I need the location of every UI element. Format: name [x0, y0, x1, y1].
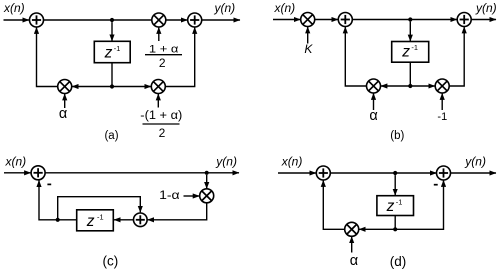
- label minus at A1 (c): [47, 183, 51, 185]
- svg-text:-1: -1: [411, 43, 418, 52]
- wire node to delay (d): [394, 175, 396, 195]
- wire A1 to A2 (d): [330, 172, 436, 174]
- adder A2 (c): [134, 213, 148, 227]
- adder A1 (c): [31, 166, 45, 180]
- svg-text:α: α: [59, 106, 67, 122]
- wire A1 to A2 (b): [352, 19, 457, 21]
- wire node to M2 (a): [72, 86, 112, 88]
- wire delay to node (a): [111, 63, 113, 87]
- wire minus one to M2 (b): [441, 93, 443, 110]
- node after A1 (b): [408, 17, 412, 21]
- multiplier M1 (a): [152, 13, 166, 27]
- wire M0 to A1 (b): [315, 19, 338, 21]
- delay box Z2 (b): [392, 42, 429, 63]
- svg-text:z: z: [104, 44, 113, 61]
- wire A1 to M1 (a): [44, 19, 152, 21]
- svg-text:x(n): x(n): [5, 154, 27, 168]
- multiplier M2 minus one (b): [435, 79, 449, 93]
- label z-1 (d): [386, 198, 403, 215]
- coefficient -(1+alpha)/2 label (a): [140, 110, 182, 140]
- wire coeff to M3 (a): [157, 94, 159, 108]
- multiplier M1 (c): [200, 189, 214, 203]
- multiplier M3 (a): [151, 80, 165, 94]
- svg-text:z: z: [386, 198, 395, 215]
- wire node to A2 (d): [395, 180, 443, 229]
- adder A1 (a): [30, 13, 44, 27]
- svg-text:α: α: [350, 253, 358, 269]
- multiplier M0 K (b): [301, 13, 315, 27]
- wire A1 to output (c): [45, 172, 239, 174]
- svg-text:(b): (b): [390, 130, 404, 142]
- wire M2 to A1 (a): [37, 27, 58, 86]
- label z-1 (b): [401, 43, 418, 60]
- svg-text:K: K: [304, 42, 313, 56]
- svg-text:y(n): y(n): [464, 154, 486, 168]
- wire node to delay (a): [111, 22, 113, 41]
- node after delay (c): [56, 218, 60, 222]
- svg-text:z: z: [401, 44, 410, 61]
- wire input (d): [278, 172, 316, 174]
- label minus at A2 (d): [434, 184, 438, 186]
- wire input (b): [273, 19, 300, 21]
- wire output y(n) (d): [451, 172, 497, 174]
- wire output y(n) (b): [471, 19, 496, 21]
- multiplier M1 alpha (b): [367, 79, 381, 93]
- delay box Z3 (c): [77, 210, 114, 231]
- fraction bar (1+alpha)/2 (a): [145, 54, 182, 56]
- node after A1 (d): [393, 171, 397, 175]
- wire M1 to A1 (d): [323, 180, 344, 229]
- wire node to M2 (b): [410, 85, 435, 87]
- svg-text:1 + α: 1 + α: [149, 43, 179, 55]
- adder A2 (b): [457, 13, 471, 27]
- node below delay (a): [110, 84, 114, 88]
- wire delay to node (b): [409, 62, 411, 86]
- svg-text:1-α: 1-α: [159, 190, 180, 202]
- svg-text:-1: -1: [437, 111, 447, 123]
- svg-text:-1: -1: [97, 212, 104, 221]
- wire alpha to M2 (a): [64, 94, 66, 108]
- svg-text:(c): (c): [103, 254, 119, 269]
- wire M1 to A2 (a): [166, 19, 188, 21]
- wire output y(n) (a): [202, 19, 240, 21]
- wire delay to node (d): [394, 216, 396, 230]
- wire node to A2 top loop (c): [58, 197, 141, 220]
- fraction bar -(1+alpha)/2 (a): [143, 123, 180, 125]
- svg-text:x(n): x(n): [3, 1, 25, 15]
- wire K to M0 (b): [307, 27, 309, 44]
- adder A2 (d): [437, 166, 451, 180]
- wire node down to M1 (c): [206, 175, 208, 189]
- adder A1 (d): [316, 166, 330, 180]
- svg-text:-1: -1: [114, 44, 121, 53]
- node below delay (b): [408, 84, 412, 88]
- wire M3 to A2 (a): [165, 27, 194, 86]
- node below delay (d): [393, 227, 397, 231]
- adder A2 (a): [188, 13, 202, 27]
- multiplier M1 (d): [345, 222, 359, 236]
- wire node to M1 (b): [381, 85, 411, 87]
- svg-text:α: α: [369, 108, 377, 124]
- node before output (c): [205, 171, 209, 175]
- wire 1-alpha to M1 (c): [184, 195, 200, 197]
- svg-text:-(1 + α): -(1 + α): [140, 110, 182, 122]
- svg-text:2: 2: [159, 126, 166, 140]
- delay box Z1 (a): [94, 41, 130, 62]
- svg-text:y(n): y(n): [214, 1, 236, 15]
- wire node to M3 (a): [112, 86, 151, 88]
- svg-text:z: z: [86, 213, 95, 230]
- wire alpha to M1 (d): [351, 237, 353, 253]
- wire input (c): [4, 172, 31, 174]
- wire M1 to A2 (c): [148, 203, 207, 220]
- wire alpha to M1 (b): [373, 93, 375, 110]
- wire node to M1 (d): [359, 228, 395, 230]
- svg-text:-1: -1: [396, 198, 403, 207]
- svg-text:x(n): x(n): [274, 1, 296, 15]
- wire M1 to A1 (b): [345, 27, 366, 86]
- label z-1 (c): [86, 212, 104, 230]
- label z-1 (a): [104, 44, 121, 61]
- coefficient (1+alpha)/2 label (a): [149, 43, 179, 70]
- adder A1 (b): [338, 13, 352, 27]
- svg-text:x(n): x(n): [281, 155, 303, 169]
- svg-text:(d): (d): [390, 254, 407, 269]
- multiplier M2 (a): [58, 80, 72, 94]
- svg-text:y(n): y(n): [215, 155, 237, 169]
- delay box Z4 (d): [377, 196, 414, 216]
- wire node to delay (b): [409, 22, 411, 42]
- wire A2 to delay (c): [114, 219, 134, 221]
- wire delay to A1 (c): [39, 180, 77, 219]
- svg-text:(a): (a): [104, 130, 118, 142]
- wire coeff to M1 (a): [158, 27, 160, 41]
- wire M2 to A2 (b): [449, 27, 464, 86]
- node after A1 (a): [110, 18, 114, 22]
- svg-text:2: 2: [159, 56, 166, 70]
- svg-text:y(n): y(n): [475, 1, 497, 15]
- wire input (a): [4, 19, 30, 21]
